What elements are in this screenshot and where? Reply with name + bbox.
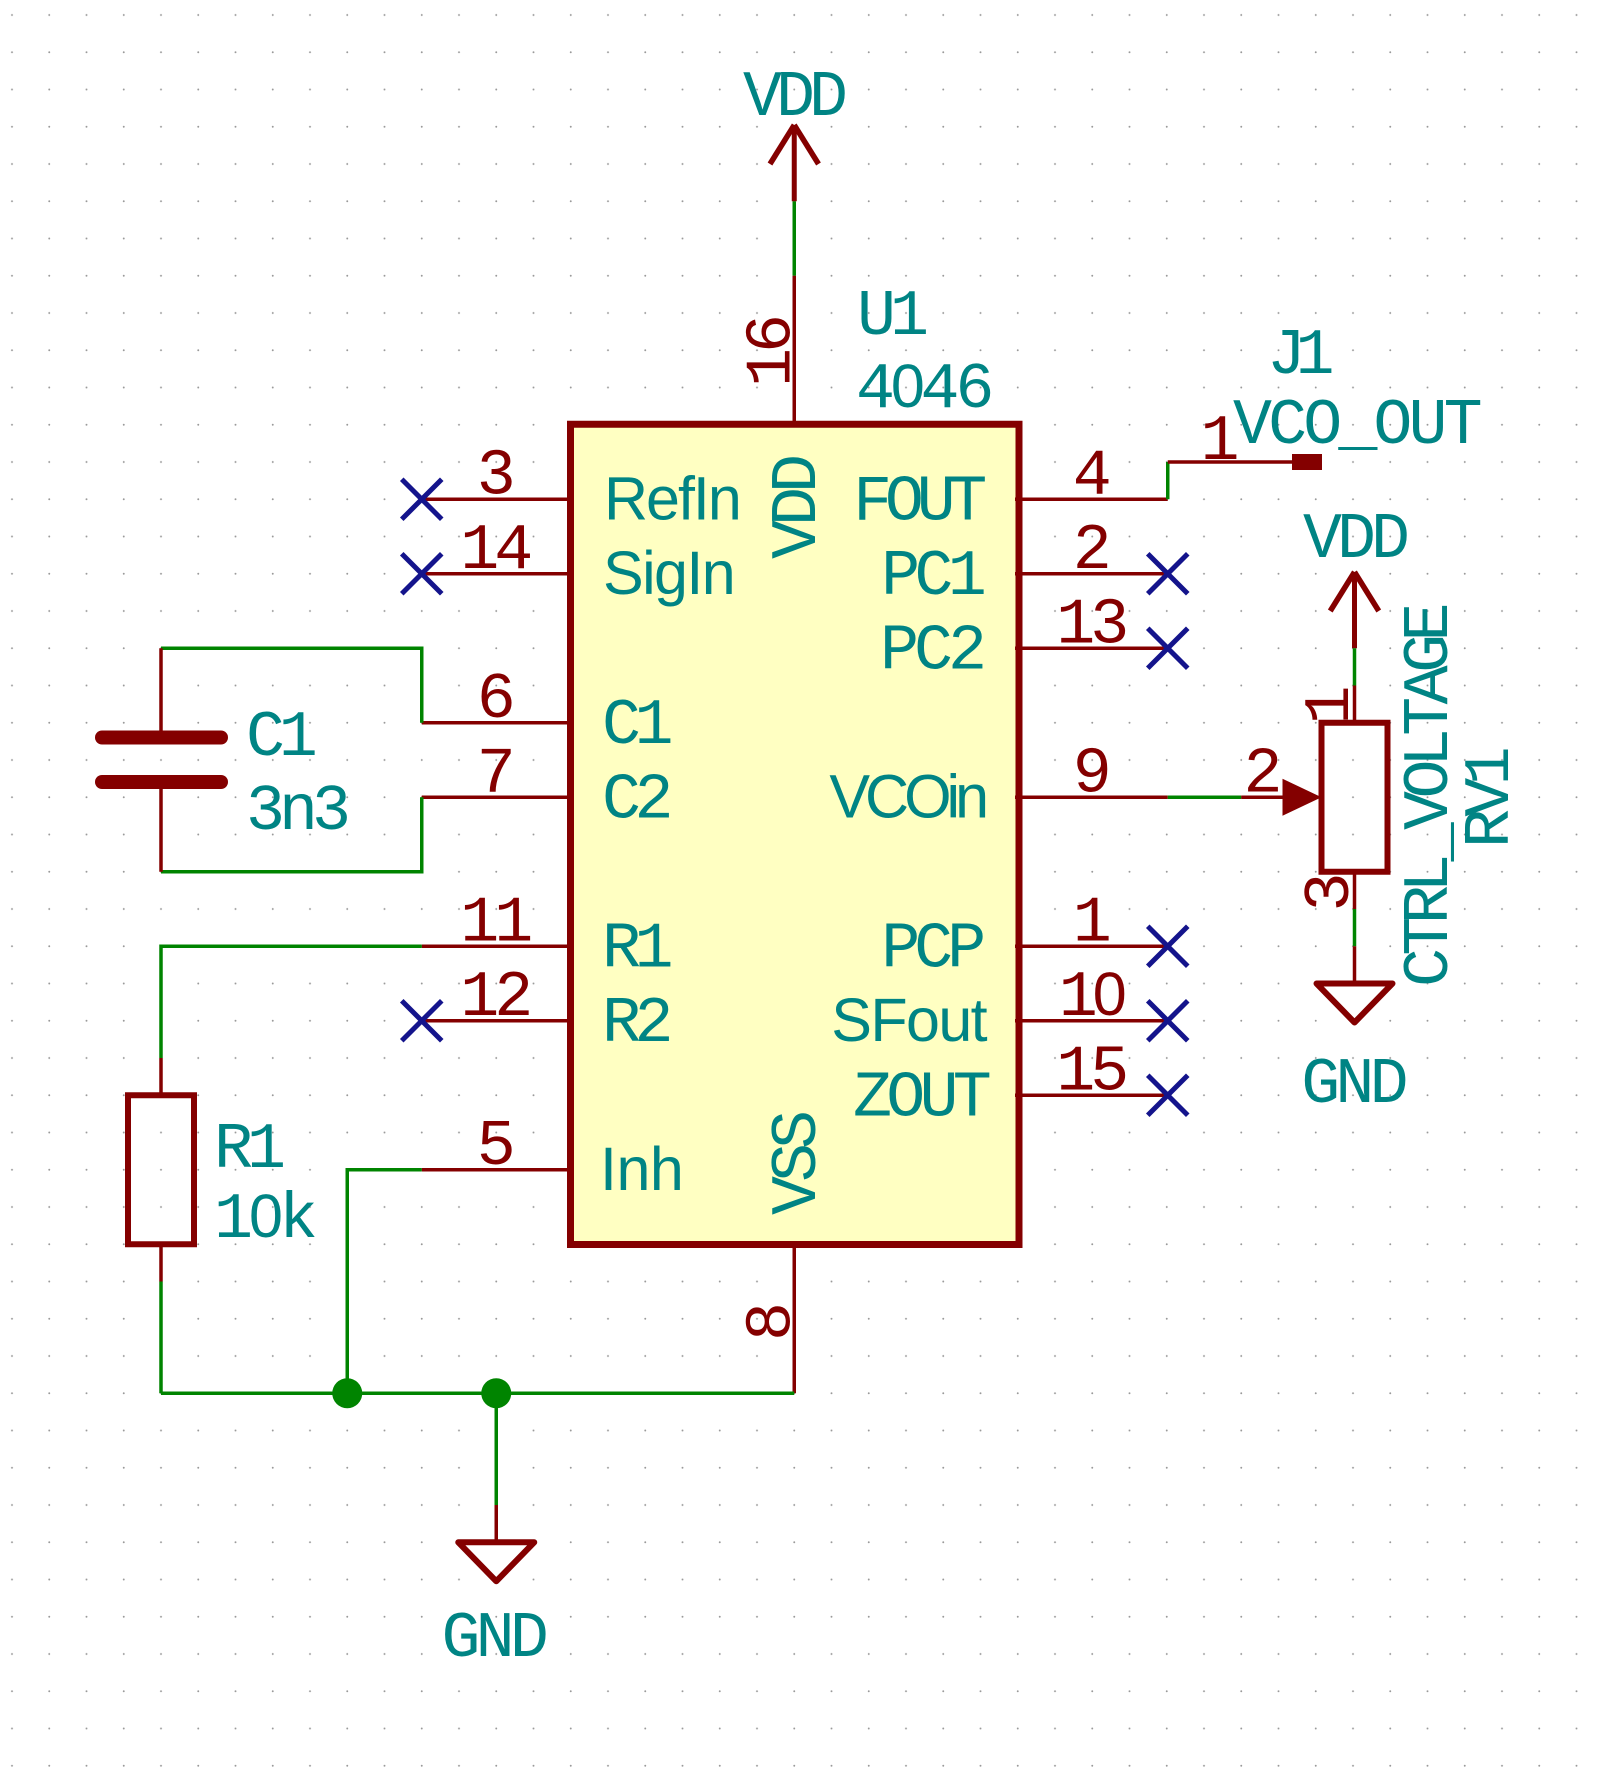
pin 6 C1 xyxy=(422,663,671,763)
svg-text:VCO_OUT: VCO_OUT xyxy=(1233,389,1481,463)
no-connect pin 10 xyxy=(1148,1001,1188,1041)
pin 5 Inh xyxy=(422,1110,684,1203)
svg-text:VDD: VDD xyxy=(1303,503,1407,577)
pin 3 RefIn xyxy=(422,439,740,532)
pin 2 PC1 xyxy=(881,514,1168,614)
svg-text:FOUT: FOUT xyxy=(853,465,985,539)
svg-text:12: 12 xyxy=(460,961,529,1035)
svg-text:VDD: VDD xyxy=(761,457,835,559)
wire pin 11 to R1 xyxy=(161,946,422,1058)
svg-text:PC2: PC2 xyxy=(880,614,983,688)
svg-text:14: 14 xyxy=(460,514,530,588)
svg-text:13: 13 xyxy=(1056,588,1125,662)
svg-text:RV1: RV1 xyxy=(1454,749,1528,848)
pin 1 PCP xyxy=(881,886,1167,986)
svg-text:7: 7 xyxy=(477,737,516,811)
pin 12 R2 xyxy=(422,961,670,1061)
junction at GND branch xyxy=(481,1378,511,1408)
svg-text:PC1: PC1 xyxy=(881,540,984,614)
wire C1 bottom to pin 7 xyxy=(161,797,422,872)
svg-text:C1: C1 xyxy=(602,689,671,763)
wire ground rail xyxy=(161,1392,794,1396)
svg-text:VDD: VDD xyxy=(743,61,845,135)
svg-text:16: 16 xyxy=(735,318,809,387)
svg-text:GND: GND xyxy=(1301,1048,1405,1122)
svg-text:J1: J1 xyxy=(1267,319,1332,393)
svg-text:4: 4 xyxy=(1073,439,1112,513)
wire R1 bottom to rail xyxy=(159,1282,163,1394)
pin 15 ZOUT xyxy=(853,1035,1168,1135)
no-connect pin 2 xyxy=(1148,554,1188,594)
svg-text:PCP: PCP xyxy=(881,912,983,986)
svg-text:U1: U1 xyxy=(857,280,926,354)
svg-text:C1: C1 xyxy=(246,701,315,775)
svg-text:10k: 10k xyxy=(214,1182,315,1257)
svg-text:GND: GND xyxy=(441,1602,545,1676)
no-connect pin 3 xyxy=(402,479,442,519)
svg-text:5: 5 xyxy=(477,1110,516,1184)
svg-text:2: 2 xyxy=(1243,737,1282,811)
pin 16 VDD (top) xyxy=(735,276,835,559)
ground symbol GND (bottom) xyxy=(441,1505,545,1676)
no-connect pin 14 xyxy=(402,554,442,594)
svg-text:2: 2 xyxy=(1073,514,1112,588)
pin 13 PC2 xyxy=(880,588,1168,688)
pin 10 SFout xyxy=(831,960,1168,1054)
no-connect pin 15 xyxy=(1148,1075,1188,1115)
svg-text:15: 15 xyxy=(1056,1035,1125,1109)
pin 14 SigIn xyxy=(422,514,734,607)
svg-text:10: 10 xyxy=(1059,960,1125,1035)
svg-text:3: 3 xyxy=(1294,872,1368,911)
svg-text:4046: 4046 xyxy=(856,352,990,427)
resistor R1 10k xyxy=(128,1058,315,1282)
svg-text:R1: R1 xyxy=(602,912,671,986)
svg-text:3: 3 xyxy=(477,439,516,513)
wire rail to GND xyxy=(495,1393,499,1505)
power symbol VDD (right) xyxy=(1303,503,1407,648)
svg-text:RefIn: RefIn xyxy=(604,464,740,532)
ground symbol GND (right) xyxy=(1301,946,1405,1122)
pin 9 VCOin xyxy=(829,737,1167,830)
svg-text:VCOin: VCOin xyxy=(829,762,985,830)
svg-text:9: 9 xyxy=(1073,737,1112,811)
svg-text:11: 11 xyxy=(460,886,530,960)
wire C1 top to pin 6 xyxy=(161,648,422,723)
svg-text:Inh: Inh xyxy=(600,1135,683,1203)
svg-text:8: 8 xyxy=(735,1302,809,1341)
junction at Inh branch xyxy=(332,1378,362,1408)
svg-text:ZOUT: ZOUT xyxy=(853,1061,990,1135)
wire RV1 pin 3 to GND xyxy=(1353,909,1357,946)
svg-text:1: 1 xyxy=(1294,685,1368,724)
wire pin 4 to J1 xyxy=(1166,462,1170,499)
pin 8 VSS (bottom) xyxy=(735,1113,835,1393)
svg-text:SFout: SFout xyxy=(831,986,987,1054)
svg-text:R2: R2 xyxy=(602,987,670,1061)
svg-text:VSS: VSS xyxy=(761,1113,835,1215)
svg-text:6: 6 xyxy=(477,663,516,737)
pin 7 C2 xyxy=(422,737,670,837)
svg-text:R1: R1 xyxy=(214,1113,283,1187)
svg-text:SigIn: SigIn xyxy=(603,539,734,607)
no-connect pin 13 xyxy=(1148,628,1188,668)
no-connect pin 12 xyxy=(402,1001,442,1041)
potentiometer RV1 xyxy=(1241,606,1528,987)
wire VDD to RV1 pin 1 xyxy=(1353,648,1357,685)
IC U1 4046 body xyxy=(571,424,1020,1244)
no-connect pin 1 xyxy=(1148,926,1188,966)
wire pin 9 to RV1 wiper xyxy=(1168,796,1242,800)
pin 4 FOUT xyxy=(853,439,1168,539)
capacitor C1 xyxy=(102,648,347,872)
wire Inh to rail xyxy=(347,1170,422,1394)
pin 11 R1 xyxy=(422,886,671,986)
connector J1 VCO_OUT xyxy=(1168,319,1481,479)
svg-text:3n3: 3n3 xyxy=(246,775,347,849)
power symbol VDD (top) xyxy=(743,61,845,201)
wire VDD to U1 pin 16 xyxy=(793,201,797,276)
svg-text:1: 1 xyxy=(1073,886,1112,960)
svg-text:C2: C2 xyxy=(602,763,670,837)
